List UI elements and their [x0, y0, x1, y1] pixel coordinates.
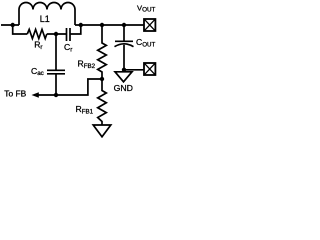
capacitor COUT — [115, 41, 134, 46]
wire GND node to terminal box — [124, 69, 143, 71]
wire Cr to rail riser — [70, 25, 81, 34]
svg-text:Cr: Cr — [64, 42, 73, 54]
junction dot rail-COUT — [122, 23, 126, 27]
wire input line — [1, 24, 19, 26]
svg-text:VOUT: VOUT — [137, 3, 156, 13]
capacitor Cr — [67, 28, 71, 41]
svg-text:L1: L1 — [40, 14, 50, 24]
capacitor Cac — [47, 70, 65, 74]
wire FB node to To-FB step — [39, 79, 103, 95]
junction dot FB node — [100, 77, 104, 81]
arrow To FB — [32, 92, 39, 98]
svg-text:RFB1: RFB1 — [76, 104, 94, 116]
junction dot Cac-FB node — [54, 93, 58, 97]
svg-text:Rr: Rr — [34, 39, 43, 51]
wire COUT to GND node — [123, 45, 125, 70]
wire Rr to Cr — [47, 33, 67, 35]
junction dot Cac tap node — [54, 32, 58, 36]
wire Cac riser lower — [55, 74, 57, 95]
svg-text:RFB2: RFB2 — [78, 58, 96, 70]
wire top rail — [75, 24, 143, 26]
svg-text:GND: GND — [114, 83, 133, 93]
inductor L1 — [19, 3, 75, 26]
wire COUT riser — [123, 25, 125, 41]
junction dot input node — [11, 23, 15, 27]
resistor RFB2 — [98, 25, 107, 79]
junction dot GND node — [122, 68, 126, 72]
terminal box GND-side — [144, 63, 155, 75]
svg-text:COUT: COUT — [136, 37, 156, 48]
svg-text:To FB: To FB — [4, 89, 26, 99]
ground bottom triangle — [93, 125, 111, 137]
wire Cac riser upper — [55, 34, 57, 70]
junction dot rail-RFB2 — [100, 23, 104, 27]
resistor RFB1 — [98, 79, 107, 125]
wire input node down to Rr branch — [13, 25, 28, 34]
ground COUT triangle — [115, 72, 132, 82]
resistor Rr — [27, 29, 47, 38]
svg-text:Cac: Cac — [31, 66, 44, 77]
junction dot rail-Cr — [79, 23, 83, 27]
terminal box VOUT — [144, 19, 155, 31]
